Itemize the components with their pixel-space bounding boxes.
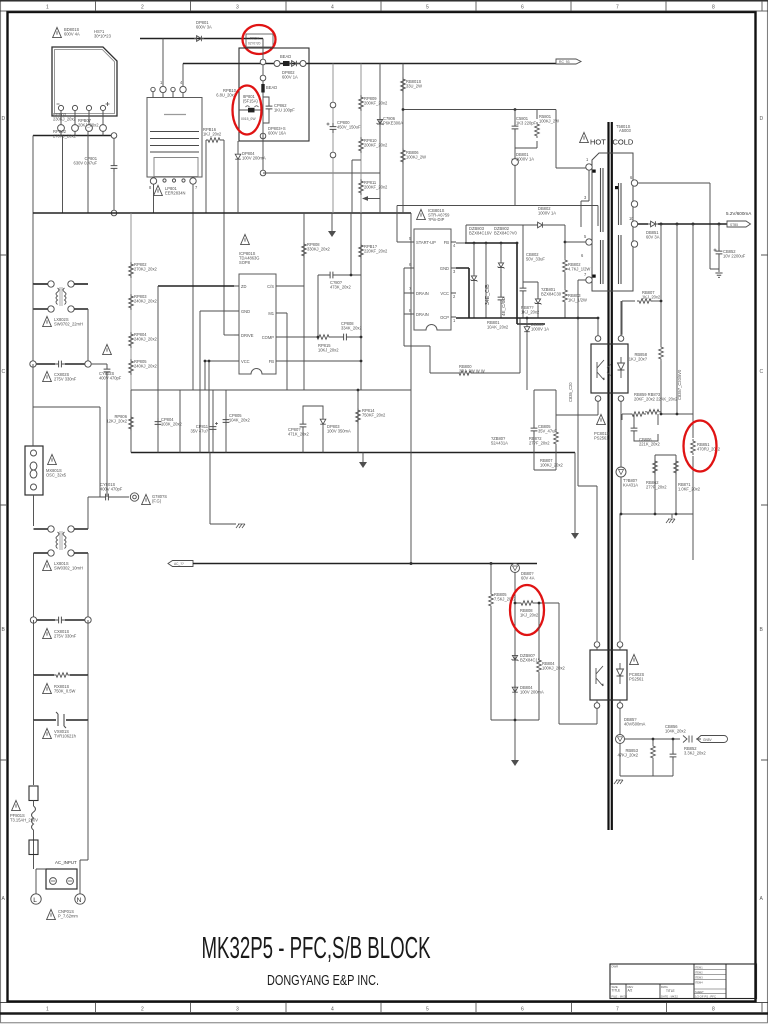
capacitor CB802 column x523 [523, 225, 538, 318]
capacitor CB857 column [672, 739, 674, 776]
cluster rung y390 [534, 389, 556, 391]
warning triangle LP801 [154, 185, 163, 195]
wire bridge pins stubs [61, 111, 103, 125]
transformer T5801S outline [592, 153, 633, 291]
wire LF801 pin4 riser [182, 64, 184, 87]
svg-text:BEAD: BEAD [280, 54, 291, 59]
resistor RB851 red circled [691, 439, 696, 455]
svg-text:RC_93: RC_93 [559, 60, 570, 64]
wire FB pin [281, 360, 361, 362]
svg-text:BD801S600V 4A: BD801S600V 4A [64, 27, 80, 37]
svg-text:START-UP: START-UP [416, 240, 436, 245]
wire GND tie to OCP [456, 268, 469, 318]
resistor column RP809/RP810/RP811 [360, 64, 362, 214]
rung RB807 y301 [622, 301, 635, 335]
choke LX801S windings [56, 532, 66, 549]
wire GND pin [200, 311, 234, 390]
pin 3 stub [581, 170, 589, 227]
bottom feedback rung y514 [621, 513, 693, 515]
long vertical x411 [410, 213, 412, 564]
svg-text:RB801S33U_2W: RB801S33U_2W [406, 79, 422, 89]
diode DB80x circle on bus [511, 564, 520, 573]
rails to RX801S [34, 620, 89, 675]
svg-text:C: C [760, 369, 764, 375]
bus E startup top [397, 206, 598, 227]
svg-text:C/S: C/S [267, 284, 274, 289]
wire tap chain x352 [352, 160, 361, 213]
shunt regulator KA431 [616, 467, 626, 477]
junction dots bus D [402, 108, 405, 111]
wire FB top rung y225 [466, 225, 535, 243]
svg-text:DWR: DWR [612, 965, 619, 969]
svg-text:DB85160V 3A: DB85160V 3A [646, 230, 660, 240]
svg-text:DONGYANG E&P INC.: DONGYANG E&P INC. [267, 973, 379, 989]
main bus B start [183, 63, 556, 65]
wire DB80x down [514, 573, 516, 761]
resistor RP815 [315, 335, 331, 340]
svg-text:GND: GND [440, 266, 449, 271]
svg-text:ITEM3: ITEM3 [695, 976, 703, 980]
top zone band line [0, 10, 768, 12]
bus F y563.5 [193, 563, 537, 565]
resistor RB80x [535, 122, 540, 138]
svg-text:3: 3 [236, 1007, 239, 1013]
wire top bus A [140, 38, 263, 40]
series cap CB856 [683, 736, 692, 743]
svg-text:VCC: VCC [440, 291, 449, 296]
OCP source bus I y318 [456, 317, 598, 319]
rails below VX801S [34, 720, 89, 855]
connector screws [50, 878, 57, 885]
wire KA431 to rung [620, 477, 622, 514]
main output wire [638, 223, 727, 225]
wire stb out row y739 [625, 738, 702, 740]
resistor RB853 column [652, 739, 654, 776]
BEAD on bus B [283, 61, 290, 66]
junction circle x263 lower [260, 133, 266, 139]
svg-text:02?0?20: 02?0?20 [248, 42, 261, 46]
wire RP816 left leg [205, 140, 207, 213]
svg-text:DRAIN: DRAIN [416, 312, 429, 317]
svg-text:2: 2 [141, 1007, 144, 1013]
wire opto bottom left [596, 708, 598, 724]
diode DB801 [514, 148, 516, 206]
capacitor CB806 parallel [634, 414, 658, 441]
svg-text:STB5: STB5 [730, 223, 738, 227]
svg-text:FR24: FR24 [250, 37, 259, 41]
wire C/S pin [281, 285, 304, 287]
wire LF801 pin1 riser [162, 39, 164, 87]
resistor RP806 [129, 415, 134, 431]
capacitor CP808 series [340, 334, 350, 341]
resistor RB858 [660, 301, 662, 414]
net flag GN_STB [697, 736, 728, 743]
optocoupler U PC801S [591, 344, 628, 393]
warning triangle PC801S [597, 414, 606, 424]
junction dots output [660, 223, 663, 226]
small box on fuse rail second [29, 840, 38, 855]
svg-text:SHEET: SHEET [695, 990, 704, 994]
wire rung LX802S bottom [33, 308, 88, 310]
wire COMP pin [281, 336, 361, 338]
warning triangle RX801S [43, 683, 52, 693]
TVS C7806 column [379, 64, 381, 214]
svg-text:AC_??: AC_?? [174, 562, 184, 566]
optocoupler U PC802S [590, 650, 627, 700]
svg-text:34E_C/B: 34E_C/B [485, 284, 491, 305]
warning triangle VX801S [43, 728, 52, 738]
wire aux pin7 row [578, 280, 586, 318]
capacitor CB805 column [533, 390, 535, 470]
red markup circle 2 [233, 86, 262, 135]
junction CP801 bottom on bus [111, 210, 117, 216]
ground stb [614, 780, 623, 784]
capacitor CP862 loop [263, 97, 269, 123]
svg-text:COLD: COLD [613, 138, 634, 147]
svg-text:5: 5 [426, 1007, 429, 1013]
wire L N feeds [36, 855, 88, 894]
feedback column x693 [692, 224, 694, 560]
wire rung LX802S top right [74, 283, 88, 285]
wire opto left bottom [556, 401, 598, 415]
warning triangle ICP801S [241, 234, 250, 244]
opto PC802S LED symbol [617, 663, 624, 684]
svg-text:VCC: VCC [241, 359, 250, 364]
wire FB bold drop [465, 243, 545, 324]
svg-text:T5801SA5003: T5801SA5003 [616, 124, 632, 133]
ground CB852 [715, 273, 722, 277]
svg-text:10: 10 [629, 216, 634, 221]
feedback column x661 [660, 224, 662, 301]
svg-text:M1: M1 [268, 311, 274, 316]
cluster rung y470 [534, 469, 556, 471]
diode DB802 aux [545, 224, 565, 226]
svg-text:6: 6 [521, 1007, 524, 1013]
LF801 winding bars [150, 132, 199, 153]
svg-text:8: 8 [712, 1007, 715, 1013]
svg-text:GND: GND [241, 309, 250, 314]
choke LX802S windings [56, 288, 66, 305]
svg-text:ZD: ZD [241, 284, 247, 289]
capacitor CP801 [111, 162, 118, 172]
svg-text:GN5V: GN5V [703, 738, 713, 742]
svg-text:5: 5 [426, 5, 429, 11]
aux pin 7 [586, 277, 592, 283]
wire sense columns to DC bus [63, 131, 89, 213]
varistor VX801S [34, 719, 89, 721]
resistor RP816 horizontal [206, 138, 222, 143]
warning triangle ICB801S [417, 209, 426, 219]
junction CP801 top [111, 133, 117, 139]
op-amp U ICP801S body [239, 274, 276, 374]
resistor RB80x column [555, 390, 557, 470]
resistor chain RP802-RP805 [130, 213, 132, 390]
svg-text:AC_INPUT: AC_INPUT [55, 860, 77, 865]
opto transistor symbol [597, 360, 604, 380]
wire arrow tap y198 [367, 198, 380, 200]
net flag AC input detect [168, 561, 193, 567]
warning triangle PF801S [12, 800, 21, 810]
choke LX801S pins [48, 526, 54, 532]
svg-text:L: L [33, 897, 37, 904]
svg-text:1: 1 [46, 1007, 49, 1013]
svg-text:C835_C20: C835_C20 [568, 382, 573, 402]
net flag RC_OUT [556, 59, 581, 64]
svg-text:C8357_C20/5V0: C8357_C20/5V0 [677, 369, 682, 400]
red markup circle 3 [510, 585, 544, 635]
fuse FP801 [239, 109, 263, 111]
junction circles CX802S [30, 361, 36, 367]
secondary winding bars [619, 183, 622, 284]
ground feedback [671, 514, 673, 518]
capacitor CX802S [55, 361, 65, 368]
secondary pin 6 [631, 180, 637, 186]
svg-text:FILE : MK32: FILE : MK32 [612, 994, 628, 998]
wire bridge minus drop [61, 131, 103, 135]
primary pin 1 [586, 164, 592, 170]
svg-text:1: 1 [46, 5, 49, 11]
wire LF801 pin8 down to bus C [153, 184, 155, 213]
wire y173 to TVS column [263, 172, 380, 174]
svg-text:1/2 OF PS : PFC: 1/2 OF PS : PFC [695, 994, 716, 998]
svg-text:DP803+S600V 16A: DP803+S600V 16A [268, 126, 286, 136]
wire bus D startup feed [403, 110, 586, 169]
wire opto right bottom to KA431 [620, 401, 622, 467]
AC input connector body [46, 869, 77, 889]
terminal L [31, 894, 41, 904]
bridge rectifier BD801S body [52, 47, 117, 116]
svg-text:FB: FB [444, 240, 450, 245]
warning triangle LX802S [43, 316, 52, 326]
wire drain tie [404, 268, 430, 373]
svg-text:4: 4 [331, 1007, 334, 1013]
resistor RP812 [359, 243, 364, 259]
warning triangle PC802S [630, 654, 639, 664]
capacitor CY801S row [102, 494, 112, 501]
rung y776 [620, 744, 673, 777]
pin stubs ICP801S [234, 286, 281, 361]
vertical feed x263 [262, 39, 264, 111]
polarity dot secondary [615, 186, 618, 189]
wire aux pin5 row [565, 241, 586, 243]
wire VCC pin [205, 361, 234, 390]
svg-text:PC802SPS2561: PC802SPS2561 [629, 672, 645, 682]
ground arrow x515 [511, 760, 519, 766]
down arrow column x575 [574, 453, 576, 534]
svg-text:2: 2 [141, 5, 144, 11]
resistor RB805 column [490, 564, 492, 721]
svg-text:FB: FB [269, 359, 275, 364]
KA431 drive column to PC802 [619, 514, 621, 641]
rails below LX801S [34, 553, 89, 620]
capacitor CB801 column [515, 110, 537, 149]
wire rungs LX801S [34, 529, 89, 553]
bottom zone band [0, 1002, 768, 1004]
main FB column x361 [360, 213, 362, 390]
rails to VX801S [34, 675, 89, 720]
wire rung verticals [131, 390, 226, 453]
warning triangle CX801S [43, 628, 52, 638]
ground arrow under bus H [362, 453, 364, 463]
wire startup riser [397, 206, 408, 243]
svg-text:HOT: HOT [590, 138, 606, 147]
diode DP804 vertical [235, 152, 241, 162]
secondary pin low [631, 241, 637, 247]
terminal N [75, 894, 85, 904]
bridge pin marks on body [58, 105, 63, 110]
fuse holder box PF801S [29, 786, 38, 801]
rung y720 [491, 719, 539, 721]
main DC bus C [33, 212, 411, 214]
svg-text:N: N [77, 897, 82, 904]
capacitor CP804 [155, 418, 162, 428]
resistor RB806 [401, 148, 406, 164]
resistor RX801S [54, 673, 70, 678]
VCC sense column x578 [578, 318, 597, 641]
divider rung y414 [622, 413, 631, 415]
red markup circle 1 [243, 25, 276, 54]
svg-text:A/2: A/2 [628, 989, 633, 993]
diode DB851 circle low [619, 708, 621, 734]
rotated label column x486 [485, 243, 487, 318]
svg-text:C: C [2, 369, 6, 375]
wire bus H y452.5 [131, 452, 575, 454]
diode DB851 [648, 221, 658, 227]
wire rail through OSC [32, 407, 35, 526]
svg-text:BEAD: BEAD [266, 85, 277, 90]
svg-text:D: D [2, 116, 6, 122]
svg-text:0015_0W: 0015_0W [241, 117, 256, 121]
resistors RB862 RB861 verticals [655, 455, 676, 514]
warning triangle HOT [580, 132, 589, 142]
junction circle x263 at 173 [260, 170, 266, 176]
svg-text:6: 6 [521, 5, 524, 11]
wire left rail from rung down [32, 136, 34, 285]
junction circle x263 mid [260, 75, 266, 81]
warning triangle CX802S [43, 371, 52, 381]
diode DB804 [512, 685, 518, 695]
svg-text:ITEM2: ITEM2 [695, 971, 703, 975]
svg-text:7: 7 [616, 5, 619, 11]
resistor RB804 column [538, 603, 540, 720]
aux winding bars [601, 240, 604, 284]
diode DP802 on bus B [289, 61, 299, 67]
net flag STB5V output [727, 221, 751, 227]
opto LED symbol [618, 357, 625, 378]
resistor RB800 [430, 318, 520, 373]
transistor Q ICB801S body [414, 229, 451, 330]
wire rung LX802S top [33, 283, 48, 285]
junction dots FB row [473, 242, 476, 245]
svg-text:TITLE: TITLE [612, 989, 621, 993]
wire LF801 pin7 drive line down [192, 184, 194, 390]
svg-text:5.2V/600mA: 5.2V/600mA [726, 211, 752, 216]
wire ZD pin [158, 285, 234, 287]
FB row y242 [456, 242, 465, 244]
top zone tick marks [96, 1, 763, 11]
capacitor CP811 polar [210, 423, 217, 433]
svg-text:MK32P5 - PFC,S/B BLOCK: MK32P5 - PFC,S/B BLOCK [202, 931, 431, 965]
warning triangle LX801S [43, 560, 52, 570]
feed column x351 [350, 213, 352, 275]
resistor RP808 column [303, 213, 305, 390]
svg-text:3: 3 [236, 5, 239, 11]
red markup circle 4 [684, 421, 717, 472]
wire rails LX802 to CX802 [33, 284, 88, 364]
svg-text:DATE : MK32: DATE : MK32 [661, 994, 678, 998]
svg-text:DB80?60V 4A: DB80?60V 4A [521, 571, 535, 581]
wire M1 pin [281, 313, 287, 390]
comp RC upper branch [318, 275, 361, 337]
LF801 inner top detail [164, 114, 186, 116]
ferrite BEAD on x263 [261, 84, 264, 93]
capacitor CP800 column [332, 64, 334, 214]
svg-text:8: 8 [712, 5, 715, 11]
svg-text:T?B80?KA431A: T?B80?KA431A [623, 478, 638, 488]
svg-text:4: 4 [331, 5, 334, 11]
capacitor CP805 [223, 416, 230, 426]
secondary pin mid [631, 201, 637, 207]
aux resistor column RB802 RB803 [564, 225, 566, 318]
svg-text:4E_C/0D: 4E_C/0D [501, 297, 506, 316]
enclosure box fuse section [239, 48, 309, 141]
transformer LF801 body [147, 98, 202, 178]
svg-text:DRAIN: DRAIN [416, 291, 429, 296]
diode DB803 column [526, 318, 528, 390]
wire rung y407 [33, 364, 100, 497]
net arrow down x332 [331, 213, 333, 231]
warning triangle OSC [48, 454, 57, 464]
net label box FR24 [246, 34, 273, 47]
capacitor CP806 loop with diode DP803 [303, 406, 323, 453]
wire upper secondary loop [638, 183, 719, 269]
opto PC802S transistor symbol [596, 666, 603, 686]
warning triangle CY802S [103, 344, 112, 354]
svg-text:TITLE: TITLE [666, 989, 675, 993]
secondary pin s0 [631, 221, 637, 227]
wire DRIVE pin [224, 334, 234, 336]
wire opto right top [620, 301, 622, 336]
LF801 top pins [151, 87, 155, 91]
junction circles bus B in box [274, 61, 280, 67]
svg-text:PC801SPS2561: PC801SPS2561 [594, 431, 610, 441]
wire RP816 right leg to DRIVE column [222, 140, 224, 335]
polarity dot aux [593, 275, 596, 278]
polarity dot primary [593, 170, 596, 173]
OSC crystal box [25, 446, 43, 495]
ground trail column x210 [210, 453, 236, 525]
svg-text:ITEM4: ITEM4 [695, 980, 703, 984]
earth terminal FG [130, 493, 138, 501]
pin stubs ICB801S [404, 242, 456, 317]
capacitor CB852 [718, 224, 720, 272]
svg-text:OCP: OCP [440, 315, 449, 320]
feedback column x677 [676, 224, 678, 414]
fuse PF801S wavy [32, 806, 36, 830]
svg-text:7: 7 [616, 1007, 619, 1013]
zener DZB802 and cap column x501 [500, 243, 502, 318]
capacitor CY802S column [91, 364, 107, 497]
svg-text:DRIVE: DRIVE [241, 333, 254, 338]
rung RB808 y603 [515, 602, 559, 604]
warning triangle BD801S [53, 27, 62, 37]
choke LX802S pins [48, 281, 54, 287]
wire rung below bridge [33, 135, 114, 137]
stb left loop column x559 [559, 603, 597, 724]
svg-text:COMP: COMP [262, 335, 275, 340]
title block [610, 964, 757, 999]
junction circle x263 top [260, 59, 266, 65]
